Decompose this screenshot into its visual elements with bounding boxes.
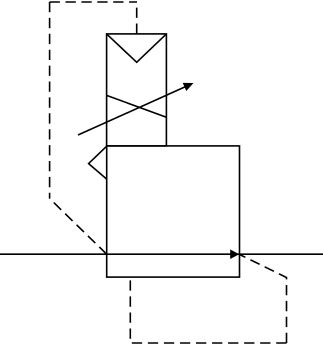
return line (dashed) right vertical and diagonal to arrow junction (240, 255, 287, 343)
pilot line (dashed) left vertical (49, 2, 51, 199)
pilot line (dashed) top stub into valve (136, 2, 138, 34)
adjustment arrow shaft (78, 86, 188, 136)
block square (107, 146, 240, 277)
pilot line (dashed) diagonal to square corner (50, 199, 107, 255)
flow arrowhead on datum line (230, 249, 239, 259)
datum horizontal line (0, 253, 323, 255)
pilot triangle on left edge (89, 146, 107, 179)
adjustment arrowhead (183, 83, 194, 91)
pilot line (dashed) top horizontal (50, 1, 137, 3)
throttle X line (107, 95, 167, 117)
valve body rectangle (107, 34, 167, 146)
return line (dashed) bottom horizontal and left vertical (130, 278, 286, 343)
spring V symbol (107, 34, 167, 62)
